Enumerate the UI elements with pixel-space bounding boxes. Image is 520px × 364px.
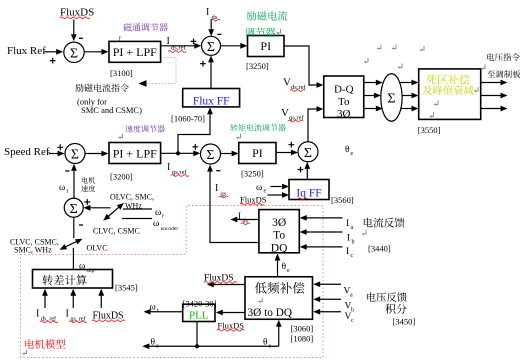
label motor speed line2 [81,185,95,192]
box Iq FF [3560] [289,180,329,200]
return mark 4 [421,46,424,50]
svg-text:SMC and CSMC): SMC and CSMC) [81,105,142,115]
box lowfreq compensation 3ph to DQ [3060][1080] [245,277,313,320]
note integral [385,304,406,314]
squiggle under Iqs [219,196,228,198]
wire omega output left from PLL [149,311,182,313]
wire deadzone output c [481,108,502,110]
wire S6 up into S3 [73,170,75,199]
svg-text:Flux Ref: Flux Ref [7,45,46,57]
sum S5 (torque current) [298,142,318,162]
wire ellipse out c to deadzone box [400,108,413,110]
wire S3 to speed PI+LPF [85,153,102,155]
plus at S1 left [50,58,56,64]
wire FluxDS down into sum S1 [73,20,75,36]
minus at S3 bottom-left [65,170,69,171]
switch contact line WHz [123,208,152,210]
wire flux PI+LPF to sum S2, Ids,ref [161,45,196,47]
ellipse sum (3-phase voltages) [381,74,402,122]
sum S6 (speed feedback) [64,198,83,217]
wire Iqs,ref up into slip calc [72,294,74,308]
wire Flux Ref into sum S1 [44,51,58,53]
wire FluxDS up into slip calc [100,294,102,308]
note current feedback [364,218,405,228]
svg-text:[3545]: [3545] [115,282,138,292]
junction dot PLL output on theta line [195,344,199,348]
squiggle under Vqs,ref [288,120,303,122]
switch blade double arrow (speed fb select) [108,207,120,217]
text lowfreq compensation [255,282,305,294]
squiggle under Iq [298,198,307,200]
return mark 5 [399,64,402,68]
wire FluxDS into Iq FF [268,194,284,196]
wire theta-e horizontal line [148,345,279,347]
svg-text:OLVC: OLVC [87,243,108,252]
wire Ia into 3ph-DQ [306,217,343,219]
wire S5 up to D-Q box (Vqs,ref) [308,109,318,142]
note flux current regulator line2 (green) [245,27,275,37]
svg-text:[3250]: [3250] [241,169,264,179]
wire speed feedback switch into S6 [89,207,111,209]
text deadzone compensation line2 [423,85,474,95]
return mark 13 [363,230,366,234]
svg-text:[1060-70]: [1060-70] [171,114,205,124]
return mark 8 [435,101,438,105]
wire Ib into 3ph-DQ [306,231,343,233]
plus at S2 bottom [200,61,206,67]
wire Speed Ref into sum S3 [49,153,59,155]
return mark 14 [23,350,26,354]
text slip calculation [43,275,87,285]
minus at S1 top [79,38,83,39]
box 3ph To DQ current [3440] [259,210,299,253]
note flux regulator (purple) [123,23,168,31]
squiggle under Vds,ref [290,90,305,92]
plus at S4 left [192,144,198,150]
svg-text:OLVC, SMC,: OLVC, SMC, [110,192,154,201]
svg-text:[3100]: [3100] [110,68,133,78]
box slip calculation [3545] [33,270,113,289]
squiggle under FluxDS slip [92,320,125,322]
wire speed PI+LPF to S4, Iqs,ref [161,152,195,154]
svg-text:DQ: DQ [271,242,288,254]
svg-text:3Ø to DQ: 3Ø to DQ [248,307,293,319]
squiggle under FluxDS IqFF [240,203,264,205]
squiggle under Ids,ref slip [40,321,58,323]
note voltage command [487,53,520,61]
note to modulator board [487,70,520,78]
note torque current regulator (green) [230,124,285,131]
switch contact line encoder [122,218,152,220]
svg-text:[1080]: [1080] [291,334,314,344]
squiggle under Ids [211,19,220,21]
wire S2 to flux PI [221,45,242,47]
return mark 3 [365,58,368,62]
wire Ids feedback down into S2 [210,19,212,31]
svg-text:CLVC, CSMC: CLVC, CSMC [93,226,140,235]
junction dot on Iqs,ref wire [176,151,180,155]
plus at S5 left [288,142,294,148]
sum S3 (speed ref) [65,144,85,164]
box flux-current PI [3250] [248,36,285,57]
wire junction branch up to Flux FF [178,113,210,153]
wire FluxDS output left from lowfreq box [213,284,246,286]
svg-text:3Ø: 3Ø [272,217,286,229]
svg-text:[3060]: [3060] [291,324,314,334]
return mark 1 [378,45,381,49]
wire D-Q out b to ellipse [364,95,375,97]
wire Flux FF up into S2 [210,61,212,88]
return mark 11 [277,29,280,33]
svg-text:FluxDS: FluxDS [60,7,94,19]
formatting dot after FluxDS [92,12,94,14]
wire ellipse out b to deadzone box [402,95,413,97]
minus at S2 top-right [217,34,221,35]
plus at S3 left [57,144,63,150]
squiggle under Ids,ref [168,51,186,53]
note speed regulator (purple) [125,125,165,132]
svg-text:To: To [338,96,350,108]
squiggle under Iqs,ref slip [69,321,87,323]
svg-text:To: To [273,229,285,241]
svg-text:PLL: PLL [189,309,209,321]
wire Iqs feedback to S4 [210,171,259,243]
plus at S5 bottom [298,167,304,173]
squiggle under FluxDS PLL [217,329,244,331]
wire PLL down to theta line [196,322,198,347]
svg-text:PI: PI [260,39,271,53]
wire Vb into lowfreq box [319,298,341,300]
box torque-current PI [3250] [239,143,276,164]
box Flux FF [1060-70] [183,89,240,107]
formatting dot after Flux Ref [43,51,45,53]
squiggle under Iqs,ref [171,175,189,177]
svg-text:[3550]: [3550] [418,125,441,135]
svg-text:3Ø: 3Ø [337,108,351,120]
return mark 6 [482,65,485,69]
svg-text:PI: PI [252,146,263,160]
wire Iq FF up into S5 [306,168,308,180]
wire deadzone output b [481,95,502,97]
svg-text:[3450]: [3450] [393,317,416,327]
wire theta-e up into lowfreq box bottom [278,326,280,347]
wire D-Q out c to ellipse [364,108,377,110]
svg-text:PI + LPF: PI + LPF [113,45,157,59]
sum S4 (torque current ref) [201,144,221,164]
svg-text:Σ: Σ [70,46,78,61]
wire slip switch to slip calc box [72,248,74,269]
svg-text:[3560]: [3560] [331,195,354,205]
wire S4 to torque PI [221,153,233,155]
minus at S4 bottom-right [216,170,220,171]
svg-text:r: r [119,33,122,42]
wire lowfreq box to PLL [222,312,246,314]
note voltage feedback [367,292,407,302]
svg-text:Σ: Σ [206,148,214,163]
slip switch blade double arrow [65,241,77,247]
motor model dashed region border [21,206,324,358]
sum S2 (flux current) [202,36,221,55]
svg-text:Flux FF: Flux FF [193,95,230,107]
svg-text:[3440]: [3440] [368,243,391,253]
wire deadzone output a [481,82,502,84]
wire S1 to flux PI+LPF [85,51,103,53]
wire Va into lowfreq box [319,283,341,285]
wire S6 down to slip switch [73,217,75,238]
svg-text:Iq FF: Iq FF [296,187,321,199]
return mark 7 [475,87,478,91]
text deadzone compensation line1 [426,74,469,84]
wire Ic into 3ph-DQ [306,246,343,248]
svg-text:PI + LPF: PI + LPF [113,147,157,161]
svg-text:[3200]: [3200] [110,172,133,182]
wire ellipse out a to deadzone box [400,82,413,84]
svg-text:Σ: Σ [304,146,312,161]
svg-text:D-Q: D-Q [334,84,354,96]
wire D-Q out a to ellipse [364,82,377,84]
wire theta-e up from lowfreq box to 3ph-DQ [277,260,279,277]
label motor speed line1 [82,177,95,184]
svg-text:Σ: Σ [70,202,78,217]
svg-text:Speed Ref: Speed Ref [4,146,50,158]
wire flux PI to D-Q box (Vds,ref) [284,46,318,85]
wire Ids,ref up into slip calc [44,294,46,308]
note excitation current command [75,84,129,92]
wire Vc into lowfreq box [319,311,341,313]
box PLL [3420-30] [183,304,215,321]
box flux PI+LPF [3100] [109,41,161,62]
box D-Q To 3ph [324,76,364,118]
svg-text:[3250]: [3250] [246,61,269,71]
note flux current regulator line1 (green) [247,11,288,21]
wire Ids feedback export left [236,219,259,221]
plus at S2 left [191,39,197,45]
svg-text:[3420-30]: [3420-30] [183,299,217,309]
note motor model (red) [25,339,65,349]
formatting dot after Speed Ref [48,152,50,154]
return mark 15 [237,134,240,138]
wire torque PI to S5 [276,152,292,154]
return mark 2 [393,45,396,49]
box speed PI+LPF [3200] [109,143,161,164]
wire omega into Iq FF [271,186,284,188]
box deadzone compensation [3550] [419,69,481,120]
svg-text:Σ: Σ [207,40,215,55]
squiggle under FluxDS top [60,17,90,19]
return mark 12 [259,298,262,302]
return mark 10 [119,134,122,138]
svg-text:Σ: Σ [387,92,395,107]
sum S1 (flux ref) [64,42,84,62]
return mark 9 [430,113,433,117]
plus at S6 top-right [84,199,90,205]
svg-text:WHz: WHz [125,201,142,210]
squiggle under Ids export [241,223,250,225]
svg-text:FluxDS: FluxDS [93,311,124,322]
svg-text:SMC, WHz: SMC, WHz [14,246,52,255]
minus at S6 bottom-right [79,224,83,225]
dashed connector from PI+LPF output to excitation-current-command note [146,58,176,84]
svg-text:Σ: Σ [71,148,79,163]
squiggle under FluxDS lowfreq [204,282,237,284]
